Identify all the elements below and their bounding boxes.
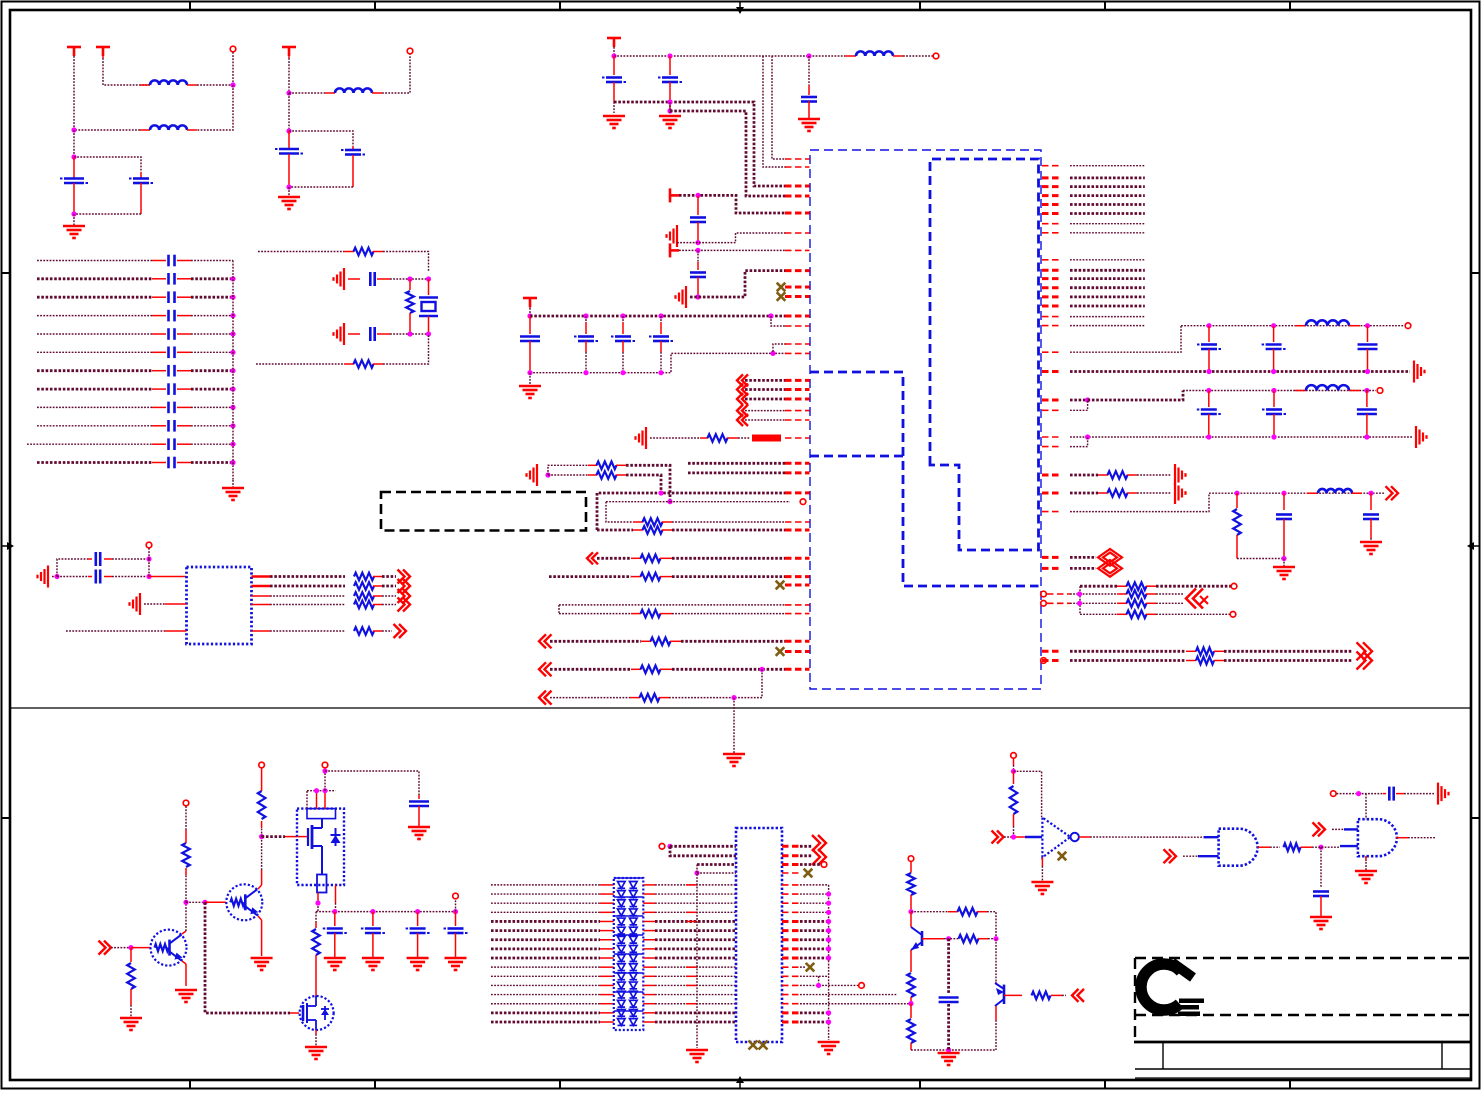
- wire: [643, 984, 736, 986]
- ESD diode array D1: [614, 878, 644, 1030]
- node J46: [1281, 556, 1286, 561]
- wire: [643, 966, 736, 968]
- wire: [73, 214, 75, 225]
- off-page input DIO3: [1186, 589, 1208, 609]
- wire: [782, 872, 800, 874]
- capacitor C7: [37, 291, 233, 303]
- capacitor C32: [1358, 326, 1378, 373]
- wire: [205, 902, 299, 1013]
- wire: [1396, 837, 1436, 839]
- wire: [911, 911, 948, 913]
- inductor L7: [1307, 489, 1362, 493]
- node J43: [1364, 434, 1369, 439]
- wire: [626, 465, 670, 501]
- ground: [1273, 567, 1295, 579]
- resistor R17: [641, 638, 681, 646]
- capacitor C19: [88, 552, 112, 566]
- signal ground: [1175, 464, 1186, 486]
- capacitor C24: [690, 195, 706, 242]
- capacitor C33: [1197, 391, 1221, 438]
- wire: [1013, 758, 1015, 771]
- wire: [672, 521, 785, 523]
- connector pin P18: [821, 862, 827, 868]
- node J68: [1318, 845, 1323, 850]
- junction: [370, 909, 375, 914]
- wire: [1070, 232, 1145, 234]
- node J20: [695, 240, 700, 245]
- wire: [73, 56, 75, 130]
- wire rail2: [614, 102, 786, 186]
- connector pin P22: [1331, 791, 1337, 797]
- title block table: [1134, 958, 1470, 1078]
- capacitor C17: [348, 272, 390, 286]
- wire: [1070, 567, 1096, 570]
- wire: [148, 559, 150, 577]
- node J3: [71, 154, 76, 159]
- capacitor C29: [649, 316, 673, 373]
- wire: [670, 845, 736, 848]
- power symbol VCC4: [607, 38, 621, 47]
- wire: [772, 56, 786, 159]
- wire: [325, 771, 419, 795]
- resistor R12: [633, 526, 672, 534]
- power symbol VCC1: [67, 47, 81, 56]
- off-page output OSC2: [382, 579, 410, 593]
- wire: [258, 837, 262, 889]
- wire right ground bus: [826, 885, 831, 1040]
- wire: [944, 938, 959, 940]
- resistor R37: [907, 1004, 915, 1051]
- wire: [643, 957, 736, 959]
- wire: [782, 911, 829, 913]
- off-page input EN2: [1164, 849, 1177, 863]
- power symbol VCC7: [523, 298, 537, 308]
- ground: [120, 1018, 142, 1030]
- wire: [988, 938, 996, 940]
- node J55: [322, 788, 327, 793]
- wire: [1156, 613, 1230, 615]
- crystal Y1: [419, 279, 438, 334]
- no-connect: [806, 963, 815, 972]
- resistor R1: [344, 248, 383, 256]
- node J64: [908, 1001, 913, 1006]
- off-page input EN1: [992, 831, 1004, 844]
- node JC1: [620, 313, 625, 318]
- wire: [903, 55, 934, 57]
- no-connect: [804, 869, 813, 878]
- node J69: [1356, 791, 1361, 796]
- wire: [782, 884, 829, 886]
- resistor R35: [959, 935, 989, 943]
- resistor R27: [1070, 648, 1224, 656]
- node J10: [407, 331, 412, 336]
- connector pin P16: [453, 893, 459, 899]
- wire: [681, 640, 785, 643]
- wire: [1312, 846, 1340, 848]
- ground: [798, 119, 820, 131]
- wire: [782, 1011, 829, 1014]
- node J9: [426, 276, 431, 281]
- wire: [1047, 593, 1117, 595]
- node J36: [1085, 397, 1090, 402]
- wire: [643, 975, 736, 977]
- wire: [74, 213, 141, 215]
- wire: [491, 947, 614, 950]
- node J27: [667, 499, 672, 504]
- node JC0: [583, 313, 588, 318]
- wire: [670, 846, 736, 856]
- wire: [317, 893, 319, 912]
- wire: [390, 333, 429, 335]
- wire: [672, 668, 785, 671]
- ground: [408, 827, 430, 839]
- connector pin P2: [407, 48, 413, 54]
- capacitor C34: [1262, 391, 1286, 438]
- off-page input SIGA: [737, 374, 785, 386]
- junction: [658, 370, 663, 375]
- junction: [583, 370, 588, 375]
- wire: [771, 316, 786, 326]
- node JB10: [230, 442, 235, 447]
- node J8: [407, 276, 412, 281]
- MOSFET Q4: [300, 996, 334, 1030]
- wire: [324, 791, 326, 809]
- wire cap rail top: [530, 315, 786, 318]
- wire: [558, 605, 560, 614]
- node J51: [183, 900, 188, 905]
- wire: [324, 771, 326, 791]
- node J42: [1271, 434, 1276, 439]
- wire: [1041, 857, 1043, 881]
- inductor L6: [1295, 385, 1360, 390]
- wire: [686, 966, 697, 968]
- wire: [679, 195, 786, 213]
- resistor R10: [588, 462, 626, 470]
- node J44: [1234, 491, 1239, 496]
- node J49: [1077, 601, 1082, 606]
- wire: [1004, 836, 1025, 838]
- wire: [197, 84, 233, 86]
- capacitor C21: [602, 56, 626, 102]
- wire: [782, 994, 897, 996]
- node J33: [1206, 369, 1211, 374]
- connector pin P6: [1395, 323, 1411, 329]
- capacitor C45: [1383, 787, 1404, 801]
- node J56: [322, 768, 327, 773]
- node J38: [1271, 388, 1276, 393]
- signal ground: [527, 464, 538, 486]
- wire: [626, 475, 661, 493]
- ground: [278, 197, 300, 209]
- capacitor C36: [1276, 493, 1292, 558]
- wire: [679, 249, 786, 251]
- wire: [130, 1005, 132, 1017]
- wire: [382, 54, 410, 93]
- connector pin P19: [859, 983, 865, 989]
- wire: [686, 1003, 697, 1005]
- off-page input RX1: [587, 552, 631, 564]
- wire filter2 rail: [1183, 390, 1366, 392]
- capacitor C14: [37, 420, 233, 432]
- wire: [315, 1030, 317, 1046]
- wire: [491, 1003, 614, 1005]
- wire: [491, 966, 614, 968]
- node J28: [759, 667, 764, 672]
- node J19: [695, 193, 700, 198]
- ground: [175, 990, 197, 1002]
- capacitor C18: [348, 327, 390, 341]
- wire: [686, 911, 697, 913]
- resistor R3: [344, 360, 383, 368]
- signal ground: [1416, 426, 1427, 448]
- junction: [332, 909, 337, 914]
- resistor R31: [258, 768, 266, 837]
- wire: [1070, 400, 1088, 410]
- off-page output PWR1: [1386, 486, 1399, 500]
- node J65: [946, 1047, 951, 1052]
- node J4: [71, 211, 76, 216]
- wire: [643, 1012, 736, 1014]
- off-page output TX1: [1224, 642, 1372, 660]
- capacitor C5: [37, 255, 233, 267]
- node J63: [993, 936, 998, 941]
- wire: [686, 984, 697, 986]
- node J16: [667, 53, 672, 58]
- wire: [289, 92, 325, 94]
- company logo: [1141, 963, 1204, 1017]
- wire: [256, 363, 344, 365]
- wire: [697, 863, 736, 866]
- wire: [782, 920, 829, 923]
- capacitor C6: [37, 273, 233, 285]
- node J6: [286, 128, 291, 133]
- ground: [305, 1047, 327, 1059]
- node J5: [286, 90, 291, 95]
- wire: [1156, 593, 1184, 595]
- off-page input RX2: [539, 634, 641, 648]
- off-page input RX4: [539, 691, 630, 705]
- capacitor C3: [275, 131, 303, 187]
- node J31: [1271, 323, 1276, 328]
- wire: [650, 437, 700, 439]
- connector pin P21: [1011, 753, 1017, 759]
- wire: [529, 373, 531, 385]
- node JB6: [230, 368, 235, 373]
- node J7: [286, 184, 291, 189]
- wire: [1070, 437, 1088, 447]
- wire: [1365, 794, 1367, 820]
- resistor R18: [631, 666, 672, 674]
- wire: [643, 911, 736, 913]
- connector pin P5: [800, 499, 806, 505]
- ground: [519, 386, 541, 398]
- node J12: [54, 574, 59, 579]
- capacitor C26: [520, 316, 540, 373]
- wire: [995, 1006, 997, 1050]
- node J50: [128, 945, 133, 950]
- wire: [1404, 793, 1434, 795]
- wire: [606, 501, 670, 503]
- node J1: [230, 82, 235, 87]
- wire: [289, 186, 353, 188]
- wire: [677, 233, 786, 243]
- wire filter2 ground rail: [1070, 436, 1412, 438]
- junction: [453, 909, 458, 914]
- node J14: [146, 574, 151, 579]
- capacitor C28: [611, 316, 635, 373]
- wire: [383, 334, 429, 364]
- wire: [947, 939, 950, 994]
- connector pin P15: [322, 762, 328, 768]
- wire: [288, 187, 290, 196]
- wire: [818, 976, 820, 985]
- node J66: [1011, 769, 1016, 774]
- connector pin P20: [908, 856, 914, 862]
- wire: [1070, 286, 1145, 289]
- wire filter1 rail: [1181, 325, 1395, 327]
- node JB9: [230, 423, 235, 428]
- node J45: [1281, 491, 1286, 496]
- inverter U3: [1025, 818, 1079, 858]
- ground: [686, 1050, 708, 1062]
- wire: [491, 957, 614, 960]
- node J52: [202, 900, 207, 905]
- capacitor C37: [1363, 493, 1379, 538]
- capacitor C22: [658, 56, 682, 111]
- wire: [491, 920, 614, 923]
- connector pin P14: [259, 762, 265, 768]
- ground: [603, 116, 625, 128]
- ground: [222, 488, 244, 500]
- signal ground: [1414, 361, 1425, 383]
- wire: [1088, 391, 1183, 401]
- capacitor C12: [37, 383, 233, 395]
- wire: [773, 344, 786, 353]
- ground: [723, 754, 745, 766]
- node J53: [259, 834, 264, 839]
- off-page output OSC1: [382, 570, 410, 584]
- inductor L1: [140, 80, 197, 85]
- node J61: [908, 909, 913, 914]
- capacitor C38: [409, 795, 429, 826]
- wire: [548, 474, 588, 476]
- wire: [670, 501, 790, 503]
- node J57: [315, 900, 320, 905]
- wire: [1070, 185, 1145, 188]
- off-page output CTL2: [1062, 989, 1084, 1002]
- wire: [686, 884, 697, 886]
- wire: [1070, 399, 1088, 402]
- node JB8: [230, 405, 235, 410]
- resistor R21: [1070, 489, 1137, 497]
- wire: [1156, 602, 1184, 604]
- connector pin P1: [230, 46, 236, 85]
- wire: [52, 576, 57, 578]
- wire: [258, 916, 262, 956]
- connector pin P4: [933, 53, 939, 59]
- resistor R6: [252, 592, 383, 600]
- capacitor C11: [37, 365, 233, 377]
- inductor L3: [325, 88, 382, 93]
- resistor R13: [633, 518, 672, 526]
- wire: [1365, 856, 1367, 860]
- node J18: [667, 99, 672, 104]
- wire: [1070, 176, 1145, 179]
- wire: [987, 912, 996, 939]
- inductor L2: [140, 125, 197, 130]
- resistor R33: [907, 862, 915, 912]
- IC U1 bank A outline: [810, 372, 1039, 586]
- node J39: [1364, 388, 1369, 393]
- junction: [415, 909, 420, 914]
- node J48: [1077, 591, 1082, 596]
- wire: [1014, 771, 1042, 817]
- wire: [1070, 269, 1145, 272]
- wire: [1365, 856, 1367, 870]
- wire: [643, 884, 736, 886]
- capacitor C23: [801, 56, 817, 118]
- wire: [66, 630, 187, 632]
- ferrite bead FB1: [738, 435, 781, 442]
- wire: [1337, 793, 1384, 795]
- wire: [316, 791, 318, 809]
- wire: [74, 157, 141, 172]
- wire: [307, 790, 336, 792]
- wire: [390, 278, 429, 280]
- wire: [686, 920, 697, 922]
- resistor R5: [252, 582, 383, 590]
- capacitor C4: [341, 146, 365, 187]
- connector pin P8: [1231, 583, 1237, 589]
- wire: [559, 613, 631, 615]
- node J30: [1206, 323, 1211, 328]
- resistor R38: [1032, 992, 1063, 1000]
- wire: [1070, 295, 1145, 298]
- wire: [1258, 846, 1281, 848]
- wire: [782, 1003, 911, 1005]
- wire pi-filter rail: [1209, 492, 1385, 494]
- wire: [643, 948, 736, 950]
- node J32: [1365, 323, 1370, 328]
- signal ground: [1175, 482, 1186, 504]
- signal ground: [334, 268, 345, 290]
- wire: [613, 102, 615, 113]
- wire rail3: [670, 111, 786, 196]
- off-page output OSC3: [382, 589, 410, 603]
- node J59: [694, 870, 699, 875]
- wire: [672, 557, 785, 560]
- resistor R23: [1080, 582, 1156, 590]
- resistor R4: [252, 573, 383, 581]
- wire: [491, 1021, 614, 1024]
- wire: [782, 957, 829, 960]
- node J23c: [770, 351, 775, 356]
- wire: [1183, 855, 1219, 857]
- wire: [57, 576, 88, 578]
- node J67: [1011, 834, 1016, 839]
- connector pin P10: [1041, 601, 1047, 607]
- off-page output CON1: [812, 835, 826, 851]
- wire: [1070, 556, 1096, 559]
- wire cap rail bottom: [530, 353, 786, 372]
- wire: [1070, 223, 1145, 225]
- resistor R2: [406, 279, 414, 334]
- wire: [782, 854, 812, 857]
- wire: [186, 901, 205, 903]
- wire: [782, 902, 829, 904]
- wire: [763, 56, 786, 167]
- wire: [232, 480, 234, 487]
